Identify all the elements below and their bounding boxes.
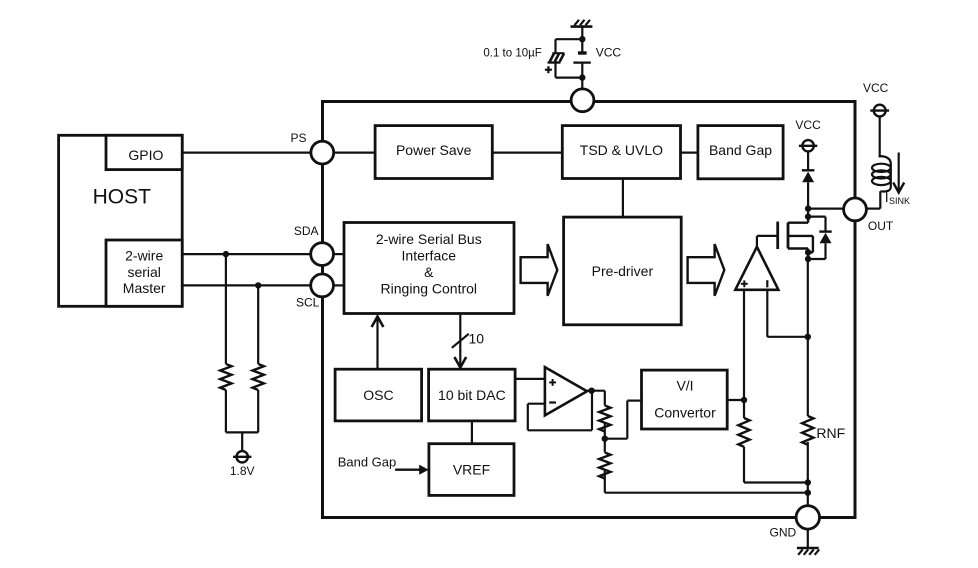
wire GND pin to ground — [807, 529, 809, 548]
ground (top, for decoupling caps) — [571, 20, 593, 27]
wire inductor to OUT pin — [866, 191, 880, 208]
svg-text:&: & — [424, 264, 434, 280]
wire DAC to buffer + input — [515, 378, 545, 380]
svg-text:PS: PS — [290, 131, 306, 145]
wire SDA pin to serial bus block — [334, 253, 345, 255]
label ISINK — [885, 189, 910, 206]
PS pin — [290, 131, 333, 164]
svg-text:GND: GND — [770, 525, 797, 539]
wire ground to cap node — [581, 27, 583, 52]
arrow Band Gap to VREF — [395, 465, 429, 475]
svg-text:HOST: HOST — [93, 186, 152, 209]
svg-text:2-wire: 2-wire — [125, 247, 163, 263]
body diode D2 — [819, 232, 831, 244]
resistor R3 (sense divider) — [738, 418, 749, 447]
svg-text:1.8V: 1.8V — [230, 464, 255, 478]
svg-text:Power Save: Power Save — [396, 142, 472, 158]
svg-text:VCC: VCC — [795, 118, 821, 132]
resistor R_SDA — [220, 364, 231, 390]
diode D1 — [802, 170, 815, 182]
resistor RNF — [802, 416, 845, 445]
VCC terminal (driver) — [795, 118, 821, 151]
SDA pin — [294, 224, 334, 266]
wire tap to V/I convertor — [605, 401, 642, 439]
pull-up resistor R_SCL wire — [257, 285, 259, 432]
svg-text:OUT: OUT — [868, 219, 894, 233]
OUT pin — [844, 198, 894, 233]
transistor Q1 gate bar — [776, 222, 779, 249]
feedback wire buffer — [528, 391, 592, 431]
GND pin — [770, 506, 820, 540]
body diode D2 loop wires — [808, 217, 825, 259]
resistor R_SCL — [253, 364, 264, 390]
capacitor C1 (ceramic, polarized plates) — [573, 51, 590, 62]
junction cap top node — [579, 36, 585, 42]
wire buffer output — [586, 391, 605, 406]
wire U1 + input — [743, 290, 745, 418]
label 0.1 to 10uF — [483, 47, 541, 59]
wire SCL pin to serial bus block — [334, 284, 345, 286]
wire TSD to Band Gap — [681, 152, 698, 154]
junction SCL pull-up — [255, 282, 261, 288]
svg-text:VREF: VREF — [453, 461, 490, 477]
svg-text:10 bit DAC: 10 bit DAC — [438, 387, 506, 403]
plus polarity mark C2 — [545, 66, 552, 73]
main IC boundary box — [323, 102, 856, 518]
junction drain node — [805, 213, 811, 219]
inductor L1 — [872, 156, 891, 192]
junction RNF tap — [805, 334, 811, 340]
HOST block — [59, 135, 183, 306]
op-amp output driver U1 — [735, 247, 778, 290]
VREF block — [429, 444, 514, 496]
wire R2 to ground rail — [605, 471, 808, 493]
svg-text:0.1 to 10µF: 0.1 to 10µF — [483, 47, 541, 59]
wire TSD to Pre-driver — [622, 179, 624, 218]
wire V/I output — [727, 399, 744, 401]
VCC pin (top) — [571, 89, 594, 112]
Band Gap block — [698, 126, 783, 179]
svg-text:Band Gap: Band Gap — [338, 455, 397, 470]
wire VCC to inductor — [879, 117, 881, 158]
RNF rail wire — [807, 259, 809, 506]
wire U1 - input to RNF node — [767, 290, 808, 337]
svg-text:VCC: VCC — [863, 81, 889, 95]
svg-text:serial: serial — [127, 264, 160, 280]
svg-text:SDA: SDA — [294, 224, 319, 238]
transistor Q1 middle lead — [788, 236, 813, 253]
svg-text:SCL: SCL — [296, 295, 320, 309]
block arrow pre-driver to output stage — [688, 244, 725, 296]
junction body diode bottom — [805, 256, 811, 262]
svg-text:Master: Master — [123, 280, 166, 296]
svg-text:VCC: VCC — [596, 45, 622, 59]
svg-text:Band Gap: Band Gap — [709, 142, 772, 158]
transistor Q1 drain lead — [788, 217, 808, 223]
junction source node — [805, 249, 811, 255]
electrolytic capacitor C2 hatched plate — [548, 53, 565, 62]
svg-text:Pre-driver: Pre-driver — [592, 263, 654, 279]
junction divider tap — [602, 436, 608, 442]
junction SDA pull-up — [223, 251, 229, 257]
junction ground rail B — [805, 490, 811, 496]
svg-text:GPIO: GPIO — [128, 147, 163, 163]
svg-text:SINK: SINK — [889, 196, 910, 206]
svg-text:Interface: Interface — [402, 247, 457, 263]
svg-text:OSC: OSC — [363, 387, 393, 403]
bus arrow serial bus to DAC — [454, 315, 466, 368]
VCC terminal (external, inductor) — [863, 81, 889, 116]
10 bit DAC block — [429, 369, 515, 421]
2-wire Serial Bus Interface block — [344, 223, 514, 314]
ground (bottom) — [797, 548, 819, 555]
svg-text:2-wire Serial Bus: 2-wire Serial Bus — [376, 231, 482, 247]
OSC block — [335, 369, 422, 421]
Power Save block — [375, 126, 492, 179]
wire DAC to VREF — [471, 421, 473, 444]
TSD & UVLO block — [562, 126, 680, 179]
svg-text:Convertor: Convertor — [654, 405, 716, 421]
transistor Q1 channel bar — [787, 223, 790, 249]
bus width slash — [452, 334, 469, 348]
wire SDA from Master — [182, 253, 311, 255]
wire GPIO to PS pin — [182, 152, 311, 154]
wire R3 to ground rail — [744, 447, 808, 483]
pull-up resistor R_SDA wire — [225, 254, 227, 432]
wire cap to VCC pin — [581, 63, 583, 90]
transistor Q1 source lead — [788, 249, 808, 260]
junction buffer output — [588, 388, 594, 394]
label VCC (top cap) — [596, 45, 622, 59]
svg-text:10: 10 — [469, 331, 485, 347]
op-amp buffer U2 — [545, 367, 587, 415]
svg-text:RNF: RNF — [816, 425, 845, 441]
svg-text:Ringing Control: Ringing Control — [381, 280, 478, 296]
resistor R1 — [599, 406, 610, 432]
wire joining pull-ups — [226, 432, 258, 450]
svg-text:TSD & UVLO: TSD & UVLO — [580, 142, 663, 158]
svg-text:V/I: V/I — [676, 378, 693, 394]
arrow OSC to serial bus block — [372, 317, 384, 370]
1.8V supply terminal — [230, 451, 255, 478]
label Band Gap (input to VREF) — [338, 455, 397, 470]
junction V/I output — [741, 397, 747, 403]
Pre-driver block — [564, 217, 682, 325]
block arrow serial bus to pre-driver — [521, 244, 558, 296]
2-wire serial Master sub-block — [106, 240, 182, 306]
wire PS pin to Power Save — [334, 152, 375, 154]
junction cap bottom node — [579, 74, 585, 80]
SCL pin — [296, 274, 334, 309]
GPIO sub-block — [106, 135, 182, 169]
wire OUT node to OUT pin — [808, 208, 844, 210]
junction ground rail A — [805, 479, 811, 485]
junction OUT node — [805, 205, 811, 211]
ISINK current arrow — [893, 153, 904, 193]
label 10 — [469, 331, 485, 347]
resistor R2 — [599, 453, 610, 479]
wire Power Save to TSD — [492, 152, 562, 154]
wire drain node up to diode D1 — [807, 182, 809, 216]
wire R1 to R2 — [604, 423, 606, 453]
wire D1 to VCC terminal — [807, 152, 809, 171]
wire SCL from Master — [182, 284, 311, 286]
wire U1 output to gate — [757, 236, 778, 247]
electrolytic capacitor C2 loop wires — [556, 39, 583, 77]
V/I Convertor block — [642, 370, 728, 429]
